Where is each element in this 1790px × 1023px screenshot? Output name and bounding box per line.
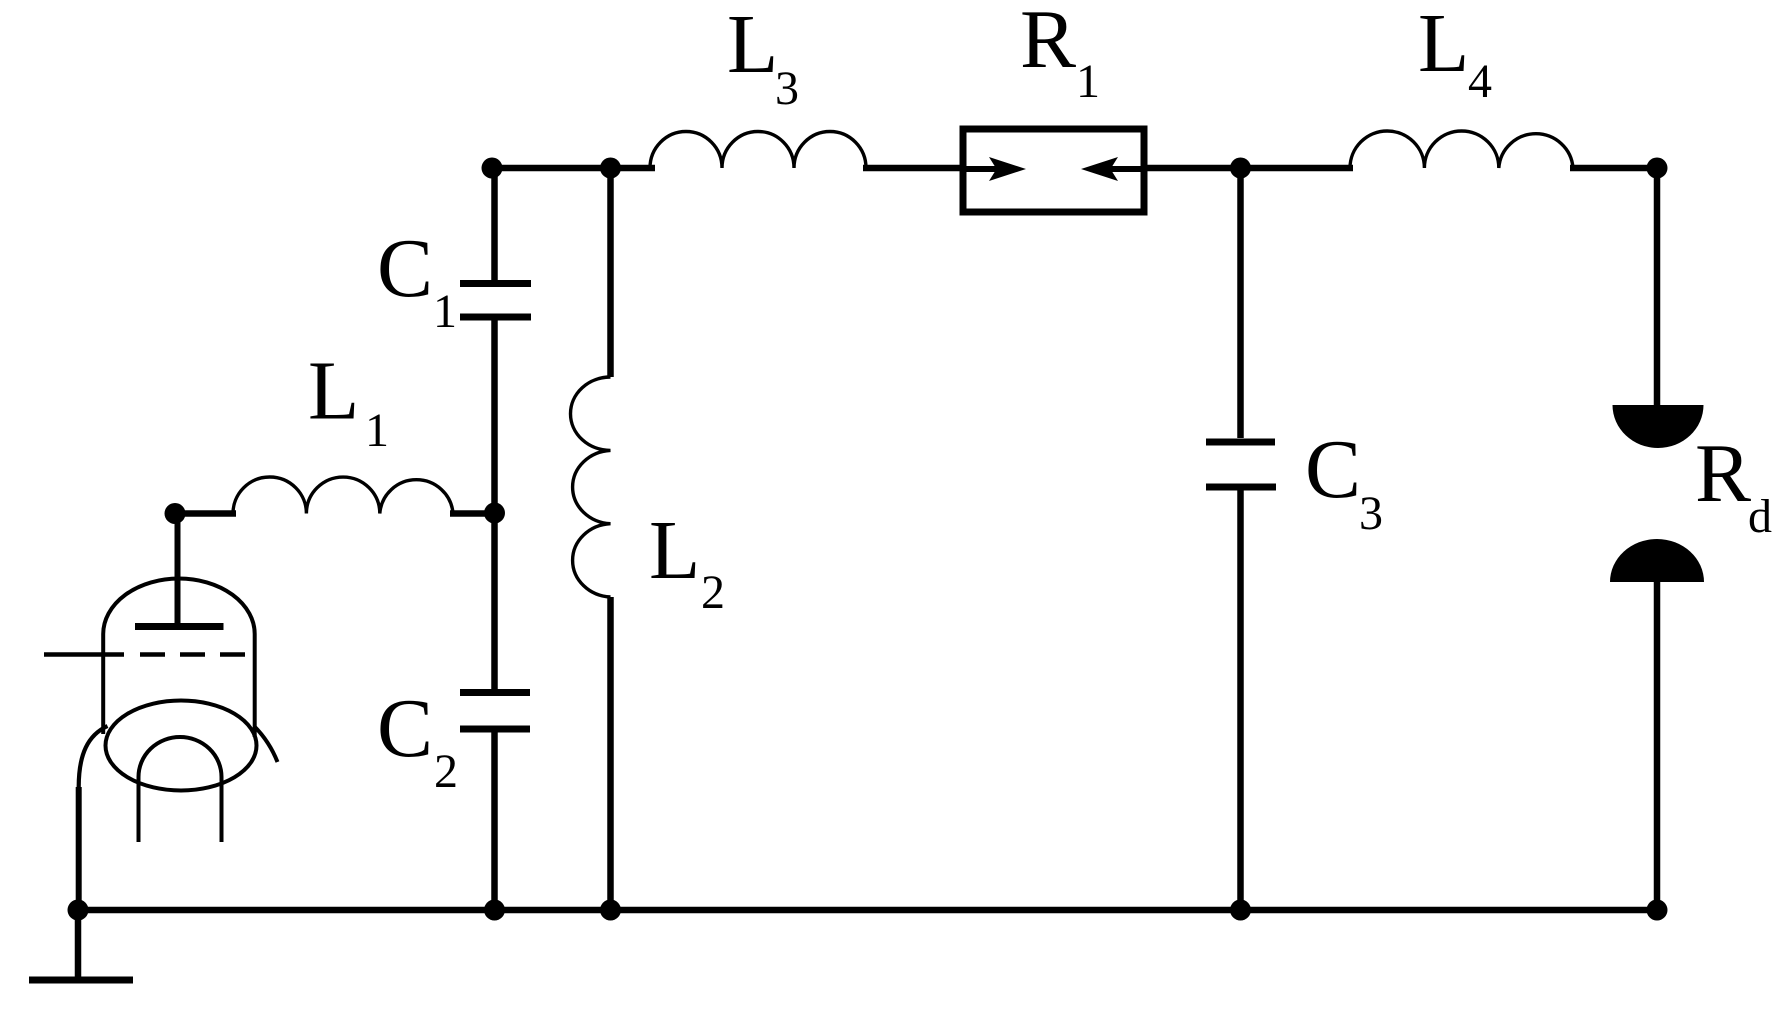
svg-text:1: 1 bbox=[365, 404, 389, 457]
svg-text:C: C bbox=[377, 222, 433, 315]
svg-text:2: 2 bbox=[434, 745, 458, 798]
svg-text:C: C bbox=[1305, 423, 1361, 516]
svg-text:L: L bbox=[727, 0, 778, 91]
svg-text:C: C bbox=[377, 682, 433, 775]
svg-text:L: L bbox=[649, 504, 700, 597]
svg-text:3: 3 bbox=[1359, 487, 1383, 540]
svg-text:1: 1 bbox=[433, 285, 457, 338]
svg-text:R: R bbox=[1020, 0, 1076, 86]
svg-text:2: 2 bbox=[701, 566, 725, 619]
svg-text:3: 3 bbox=[775, 62, 799, 115]
svg-text:L: L bbox=[1418, 0, 1469, 90]
svg-text:1: 1 bbox=[1076, 55, 1100, 108]
svg-text:4: 4 bbox=[1468, 55, 1492, 108]
svg-text:d: d bbox=[1748, 490, 1772, 543]
svg-text:L: L bbox=[308, 345, 359, 438]
svg-text:R: R bbox=[1695, 427, 1751, 520]
